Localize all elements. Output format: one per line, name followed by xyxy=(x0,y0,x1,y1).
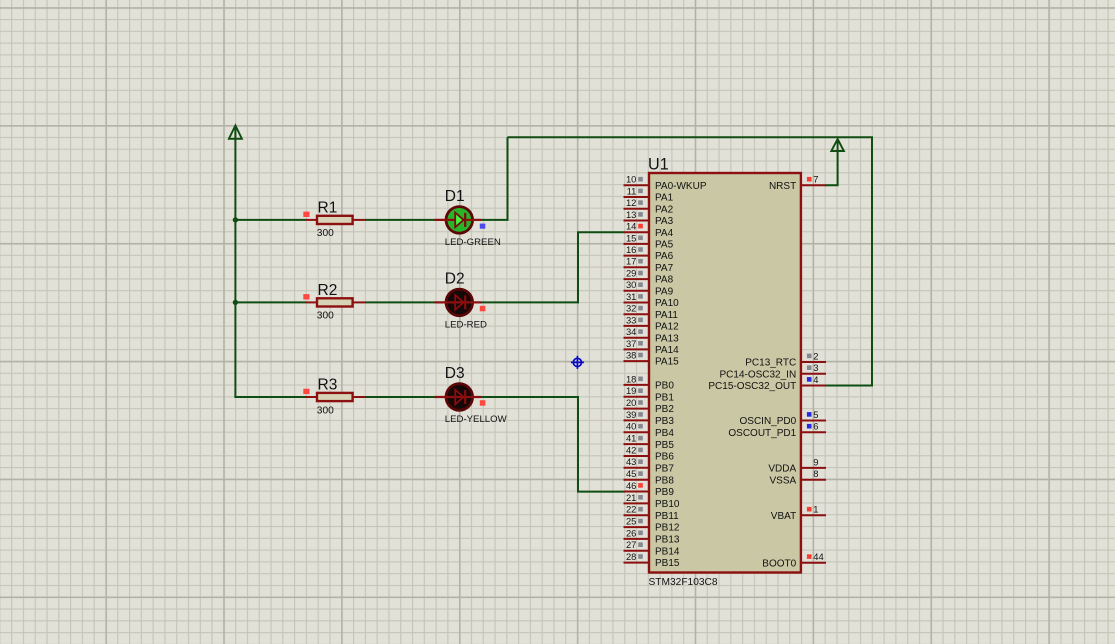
pin 25 PB12 (left) xyxy=(624,516,680,534)
svg-text:3: 3 xyxy=(813,362,818,373)
svg-text:PB5: PB5 xyxy=(655,440,674,451)
svg-text:PB13: PB13 xyxy=(655,535,680,546)
wire node R2 row to resistor R2 xyxy=(235,301,306,303)
svg-text:PB9: PB9 xyxy=(655,487,674,498)
D3 state indicator (red) xyxy=(480,400,486,406)
pin 44 BOOT0 (right) xyxy=(762,551,826,569)
svg-text:PA4: PA4 xyxy=(655,228,674,239)
svg-text:41: 41 xyxy=(626,433,636,444)
svg-text:37: 37 xyxy=(626,338,636,349)
svg-text:300: 300 xyxy=(317,405,334,416)
pin 2 PC13_RTC (right) xyxy=(745,350,826,368)
pin 22 PB11 (left) xyxy=(624,504,680,522)
svg-text:PB7: PB7 xyxy=(655,463,674,474)
pin 28 PB15 (left) xyxy=(624,551,680,569)
svg-text:9: 9 xyxy=(813,456,818,467)
resistor R3 300 xyxy=(303,376,365,416)
svg-text:PB6: PB6 xyxy=(655,452,674,463)
svg-text:PA9: PA9 xyxy=(655,286,674,297)
svg-text:5: 5 xyxy=(813,409,818,420)
svg-text:OSCIN_PD0: OSCIN_PD0 xyxy=(740,416,797,427)
svg-text:PC15-OSC32_OUT: PC15-OSC32_OUT xyxy=(708,381,796,392)
wire D3 to PB9 pin 46 xyxy=(482,397,625,492)
svg-text:33: 33 xyxy=(626,314,636,325)
svg-text:25: 25 xyxy=(626,516,636,527)
svg-text:12: 12 xyxy=(626,197,636,208)
pin 16 PA6 (left) xyxy=(624,244,674,262)
pin 3 PC14-OSC32_IN (right) xyxy=(719,362,826,380)
pin 31 PA10 (left) xyxy=(624,291,680,309)
svg-text:R1: R1 xyxy=(318,199,338,216)
svg-text:PA1: PA1 xyxy=(655,193,674,204)
MCU U1 body xyxy=(649,173,801,573)
pin 41 PB5 (left) xyxy=(624,433,675,451)
svg-text:PB11: PB11 xyxy=(655,511,679,522)
svg-text:15: 15 xyxy=(626,232,636,243)
svg-text:45: 45 xyxy=(626,468,636,479)
svg-text:PA14: PA14 xyxy=(655,345,679,356)
resistor R2 300 xyxy=(303,282,365,322)
svg-text:PA13: PA13 xyxy=(655,333,679,344)
pin 15 PA5 (left) xyxy=(624,232,674,250)
svg-text:VSSA: VSSA xyxy=(770,475,797,486)
svg-text:PA5: PA5 xyxy=(655,240,674,251)
svg-text:18: 18 xyxy=(626,373,636,384)
origin crosshair marker xyxy=(571,356,584,369)
pin 8 VSSA (right) xyxy=(770,468,826,486)
D2 state indicator (red) xyxy=(480,306,486,312)
svg-text:28: 28 xyxy=(626,551,636,562)
wire R2 to LED D2 xyxy=(365,301,435,303)
wire R1 to LED D1 xyxy=(365,219,435,221)
svg-text:44: 44 xyxy=(813,551,823,562)
svg-text:26: 26 xyxy=(626,527,636,538)
svg-text:PA2: PA2 xyxy=(655,204,674,215)
pin 45 PB8 (left) xyxy=(624,468,675,486)
svg-text:39: 39 xyxy=(626,409,636,420)
pin 32 PA11 (left) xyxy=(624,303,679,321)
svg-text:PB2: PB2 xyxy=(655,404,674,415)
LED D3 LED-YELLOW xyxy=(435,365,508,425)
svg-text:40: 40 xyxy=(626,421,636,432)
svg-text:32: 32 xyxy=(626,303,636,314)
junction node R1 rail xyxy=(233,217,238,222)
svg-text:D1: D1 xyxy=(445,188,465,205)
pin 29 PA8 (left) xyxy=(624,268,674,286)
svg-text:PB4: PB4 xyxy=(655,428,674,439)
pin 6 OSCOUT_PD1 (right) xyxy=(728,421,826,439)
svg-text:8: 8 xyxy=(813,468,818,479)
svg-text:PA3: PA3 xyxy=(655,216,674,227)
svg-text:20: 20 xyxy=(626,397,636,408)
pin 38 PA15 (left) xyxy=(624,350,680,368)
svg-text:U1: U1 xyxy=(648,156,669,174)
pin 46 PB9 (left) xyxy=(624,480,675,498)
pin 37 PA14 (left) xyxy=(624,338,680,356)
LED D2 LED-RED xyxy=(435,270,487,330)
pin 17 PA7 (left) xyxy=(624,256,674,274)
wire R3 to LED D3 xyxy=(365,396,435,398)
pin 9 VDDA (right) xyxy=(768,456,826,474)
svg-text:29: 29 xyxy=(626,268,636,279)
junction node R2 rail xyxy=(233,300,238,305)
pin 10 PA0-WKUP (left) xyxy=(624,174,707,192)
wire node R1 row to resistor R1 xyxy=(235,219,306,221)
svg-text:PC13_RTC: PC13_RTC xyxy=(745,358,796,369)
D1 state indicator (blue) xyxy=(480,224,486,229)
pin 7 NRST (right) xyxy=(769,174,826,192)
svg-text:R2: R2 xyxy=(318,282,338,299)
svg-text:D2: D2 xyxy=(445,270,465,287)
svg-text:300: 300 xyxy=(317,311,334,322)
svg-text:1: 1 xyxy=(813,504,818,515)
wire left rail corner to resistor R3 xyxy=(235,396,306,397)
wire D1 anode to top rail corner xyxy=(482,137,508,220)
wire D2 to PA4 pin 14 xyxy=(482,232,625,302)
svg-text:22: 22 xyxy=(626,504,636,515)
svg-text:VBAT: VBAT xyxy=(771,511,796,522)
pin 33 PA12 (left) xyxy=(624,314,680,332)
pin 13 PA3 (left) xyxy=(624,209,674,227)
svg-text:10: 10 xyxy=(626,174,636,185)
power symbol (left rail) xyxy=(229,125,242,138)
svg-text:PB15: PB15 xyxy=(655,558,680,569)
svg-text:27: 27 xyxy=(626,539,636,550)
svg-text:34: 34 xyxy=(626,326,636,337)
svg-text:PA10: PA10 xyxy=(655,298,679,309)
pin 34 PA13 (left) xyxy=(624,326,680,344)
svg-text:19: 19 xyxy=(626,385,636,396)
svg-text:PB3: PB3 xyxy=(655,416,674,427)
svg-text:PA12: PA12 xyxy=(655,322,679,333)
svg-text:LED-YELLOW: LED-YELLOW xyxy=(445,414,508,425)
pin 18 PB0 (left) xyxy=(624,373,675,391)
svg-text:PB12: PB12 xyxy=(655,523,680,534)
svg-text:17: 17 xyxy=(626,256,636,267)
svg-text:PB1: PB1 xyxy=(655,392,674,403)
svg-text:300: 300 xyxy=(317,228,334,239)
pin 26 PB13 (left) xyxy=(624,527,680,545)
svg-text:PA6: PA6 xyxy=(655,251,674,262)
power symbol (NRST) xyxy=(831,139,844,151)
svg-text:STM32F103C8: STM32F103C8 xyxy=(649,577,718,588)
svg-text:PA11: PA11 xyxy=(655,310,678,321)
LED D1 LED-GREEN xyxy=(435,188,501,248)
svg-text:PA0-WKUP: PA0-WKUP xyxy=(655,181,707,192)
pin 11 PA1 (left) xyxy=(624,185,674,203)
pin 5 OSCIN_PD0 (right) xyxy=(740,409,826,427)
svg-text:11: 11 xyxy=(627,185,637,196)
resistor R1 300 xyxy=(303,199,365,239)
svg-text:PB8: PB8 xyxy=(655,475,674,486)
svg-text:21: 21 xyxy=(626,492,636,503)
svg-text:13: 13 xyxy=(626,209,636,220)
svg-text:PA15: PA15 xyxy=(655,357,679,368)
svg-text:OSCOUT_PD1: OSCOUT_PD1 xyxy=(728,428,796,439)
svg-text:PB10: PB10 xyxy=(655,499,680,510)
svg-text:30: 30 xyxy=(626,279,636,290)
svg-text:38: 38 xyxy=(626,350,636,361)
svg-text:D3: D3 xyxy=(445,365,465,382)
pin 39 PB3 (left) xyxy=(624,409,675,427)
svg-text:31: 31 xyxy=(626,291,636,302)
pin 12 PA2 (left) xyxy=(624,197,674,215)
svg-text:BOOT0: BOOT0 xyxy=(762,558,796,569)
svg-text:VDDA: VDDA xyxy=(768,464,796,475)
pin 30 PA9 (left) xyxy=(624,279,674,297)
svg-text:7: 7 xyxy=(813,174,818,185)
svg-text:R3: R3 xyxy=(318,376,338,393)
svg-text:43: 43 xyxy=(626,456,636,467)
svg-text:42: 42 xyxy=(626,444,636,455)
wire NRST pin to power arrow xyxy=(825,150,838,185)
pin 4 PC15-OSC32_OUT (right) xyxy=(708,374,826,392)
pin 20 PB2 (left) xyxy=(624,397,675,415)
svg-text:LED-RED: LED-RED xyxy=(445,319,487,330)
pin 19 PB1 (left) xyxy=(624,385,675,403)
pin 43 PB7 (left) xyxy=(624,456,675,474)
svg-text:PA7: PA7 xyxy=(655,263,674,274)
svg-text:PC14-OSC32_IN: PC14-OSC32_IN xyxy=(719,369,796,380)
svg-text:PA8: PA8 xyxy=(655,275,674,286)
svg-text:LED-GREEN: LED-GREEN xyxy=(445,237,501,248)
svg-text:6: 6 xyxy=(813,421,818,432)
svg-text:PB0: PB0 xyxy=(655,381,674,392)
svg-text:2: 2 xyxy=(813,350,818,361)
pin 1 VBAT (right) xyxy=(771,504,826,522)
svg-text:PB14: PB14 xyxy=(655,546,680,557)
pin 27 PB14 (left) xyxy=(624,539,680,557)
svg-text:46: 46 xyxy=(626,480,636,491)
svg-text:NRST: NRST xyxy=(769,181,796,192)
pin 40 PB4 (left) xyxy=(624,421,675,439)
svg-text:16: 16 xyxy=(626,244,636,255)
power rail vertical wire (left) xyxy=(234,128,236,398)
svg-text:4: 4 xyxy=(813,374,818,385)
svg-text:14: 14 xyxy=(626,221,636,232)
pin 42 PB6 (left) xyxy=(624,444,675,462)
pin 21 PB10 (left) xyxy=(624,492,680,510)
pin 14 PA4 (left) xyxy=(624,221,674,239)
top rail wire to PC15 branch xyxy=(508,137,873,385)
